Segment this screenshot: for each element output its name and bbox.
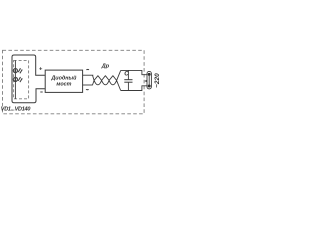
LED chain wire	[14, 60, 16, 99]
wire bottom to plug	[121, 86, 147, 91]
plug pin bottom	[148, 85, 151, 88]
plug arrow	[144, 80, 147, 82]
LED VD1	[13, 68, 22, 73]
plug pin top	[148, 73, 151, 76]
svg-text:C: C	[124, 72, 129, 78]
capacitor C	[124, 70, 132, 90]
plug X1 body	[147, 71, 151, 89]
svg-text:~220: ~220	[154, 73, 161, 88]
wire top to plug	[121, 70, 147, 74]
choke winding bottom (arcs)	[93, 80, 121, 90]
dashed box around LED string	[14, 60, 29, 98]
LED VD2	[13, 77, 22, 82]
outer dashed enclosure (lamp body)	[3, 50, 145, 114]
node -	[40, 91, 42, 93]
wire bridge AC top	[83, 74, 94, 76]
wire loop of LED module (solid, rounded corners)	[12, 55, 45, 103]
plug link wire	[148, 76, 150, 85]
choke winding top (zigzag)	[93, 70, 121, 80]
AC tilde bottom	[86, 88, 88, 91]
svg-text:Др: Др	[101, 64, 110, 70]
AC tilde top	[87, 68, 89, 71]
svg-text:мост: мост	[56, 81, 71, 87]
svg-text:VD1...VD140: VD1...VD140	[1, 106, 31, 112]
wire bridge AC bottom	[83, 84, 93, 86]
diode bridge box	[45, 70, 82, 92]
